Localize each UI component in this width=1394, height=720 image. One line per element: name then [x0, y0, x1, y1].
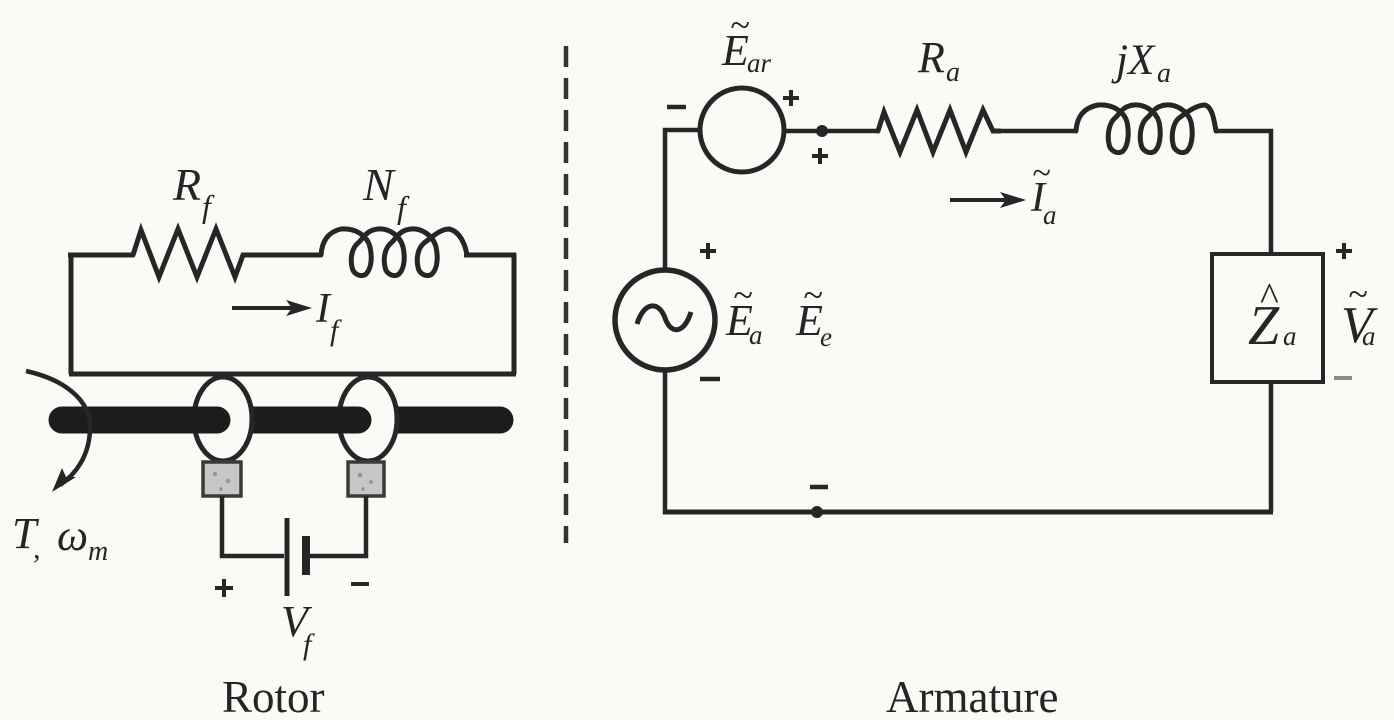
label Za: [1248, 274, 1297, 357]
label Vf: [281, 597, 315, 661]
svg-text:e: e: [820, 322, 832, 352]
svg-text:a: a: [1157, 58, 1171, 89]
battery Vf short plate: [302, 536, 310, 575]
source Ea (AC) circle: [615, 270, 715, 370]
wire: field loop bottom horizontal: [69, 372, 516, 377]
svg-text:,: ,: [33, 532, 41, 565]
inductor jXa: [1076, 105, 1216, 153]
svg-text:m: m: [88, 536, 108, 567]
plus sign right of Za top: [1336, 243, 1352, 259]
wire: Za box bottom lead: [1269, 382, 1274, 512]
load impedance Za box: [1212, 254, 1323, 382]
label Ia: [1030, 155, 1057, 230]
resistor Ra: [878, 110, 1000, 152]
svg-text:N: N: [362, 159, 396, 210]
arrow: field current If: [232, 300, 312, 316]
plus sign right of Ear: [783, 90, 799, 106]
label Ear: [721, 5, 772, 78]
wire: field loop top-left segment: [68, 253, 133, 258]
battery plus sign: [215, 579, 233, 597]
minus sign above bottom node: [810, 485, 828, 490]
sine symbol inside Ea: [637, 306, 691, 330]
caption Armature: [886, 672, 1058, 720]
arrow: armature current Ia: [950, 192, 1026, 208]
rotor shaft: [62, 407, 500, 434]
wire: battery to brush 2: [309, 496, 366, 556]
slip ring 1: [194, 377, 252, 461]
svg-text:~: ~: [730, 5, 749, 45]
brush 1: [203, 462, 241, 496]
source Ear circle: [700, 88, 784, 172]
svg-text:R: R: [917, 33, 945, 82]
wire: Ra to jXa: [1000, 129, 1075, 134]
svg-text:~: ~: [1032, 155, 1050, 192]
node dot on bottom rail: [811, 506, 823, 518]
svg-text:ar: ar: [747, 48, 772, 78]
wire: Ea down to bottom rail: [663, 370, 668, 514]
battery minus sign: [351, 582, 369, 586]
label Ra: [917, 33, 960, 88]
wire: field loop top-right segment: [464, 253, 516, 258]
label T, omega_m: [12, 509, 108, 567]
plus sign above Ea: [700, 243, 716, 259]
svg-text:~: ~: [733, 275, 752, 315]
slip ring 2: [339, 377, 397, 461]
svg-text:~: ~: [803, 275, 822, 315]
svg-text:a: a: [1043, 200, 1057, 230]
label Rf: [172, 159, 215, 224]
brush 2: [348, 462, 384, 496]
label Va: [1341, 274, 1378, 354]
minus sign left of Ear: [667, 105, 686, 110]
battery Vf long plate: [285, 518, 290, 596]
caption Rotor: [222, 672, 325, 720]
node dot after Ear: [816, 125, 828, 137]
svg-text:ω: ω: [57, 511, 88, 560]
shaft stub through slip ring 1: [192, 407, 217, 434]
label jXa: [1111, 37, 1171, 89]
label Ea: [725, 275, 763, 350]
torque arrow (curved): [26, 371, 90, 492]
svg-text:a: a: [1362, 321, 1376, 351]
wire: brush 1 to battery: [222, 496, 284, 556]
resistor Rf: [133, 229, 248, 277]
minus sign below Ea: [700, 377, 720, 382]
dashed boundary line: [564, 46, 569, 543]
label Ee: [795, 275, 832, 352]
wire: Ear right lead: [784, 129, 878, 134]
label Nf: [362, 159, 410, 225]
label If: [315, 286, 342, 347]
wire: field loop top-middle segment: [248, 253, 320, 258]
minus sign right of Za bottom: [1334, 376, 1352, 380]
wire: field loop right vertical: [512, 253, 517, 374]
wire: field loop left vertical: [69, 255, 74, 374]
svg-text:R: R: [172, 159, 201, 210]
svg-text:^: ^: [1260, 274, 1279, 319]
svg-text:jX: jX: [1111, 37, 1156, 84]
plus sign below node: [812, 148, 828, 164]
wire: Ear left lead and down to Ea: [665, 130, 700, 272]
inductor Nf: [321, 229, 467, 276]
wire: jXa to top-right corner and down: [1216, 131, 1271, 256]
svg-text:a: a: [1283, 321, 1297, 351]
shaft stub through slip ring 2: [338, 407, 358, 434]
svg-text:a: a: [946, 57, 960, 88]
svg-text:~: ~: [1348, 274, 1367, 314]
svg-text:Rotor: Rotor: [222, 672, 325, 720]
svg-text:Armature: Armature: [886, 672, 1058, 720]
svg-text:a: a: [749, 320, 763, 350]
wire: bottom rail: [663, 510, 1273, 515]
